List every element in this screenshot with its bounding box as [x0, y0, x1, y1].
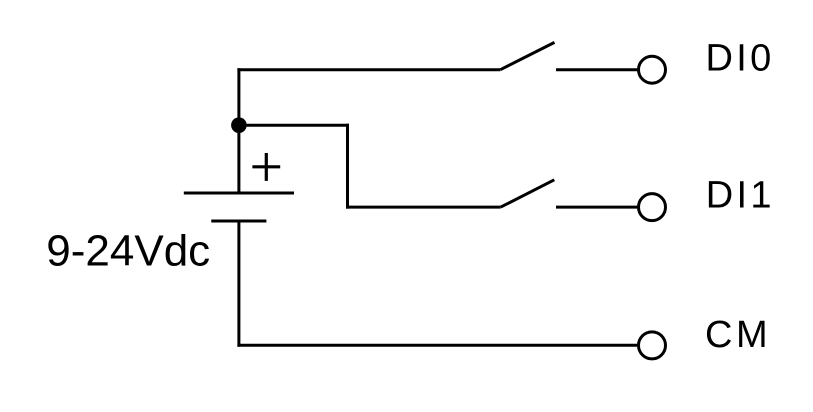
wire switch S2 right contact to terminal DI1	[556, 206, 638, 209]
switch S2 blade (DI1 row)	[501, 180, 555, 207]
wire top horizontal to switch S1	[237, 68, 500, 71]
svg-text:CM: CM	[705, 314, 771, 356]
switch S1 blade (DI0 row)	[500, 42, 554, 69]
wire battery positive vertical riser	[237, 68, 240, 193]
wire battery negative vertical drop	[237, 221, 240, 347]
svg-text:DI1: DI1	[706, 175, 775, 217]
battery BT1 positive plate	[184, 192, 294, 195]
wire branch vertical drop	[346, 124, 349, 209]
svg-text:9-24Vdc: 9-24Vdc	[46, 227, 210, 276]
battery BT1 negative plate	[211, 220, 266, 223]
junction node dot	[231, 117, 247, 133]
wire switch S1 right contact to terminal DI0	[556, 68, 638, 71]
battery plus polarity mark vertical bar	[265, 153, 268, 181]
battery plus polarity mark horizontal bar	[252, 165, 280, 168]
wire branch horizontal to switch S2	[346, 206, 501, 209]
terminal CM open circle	[639, 332, 666, 359]
wire junction to branch corner	[239, 124, 349, 127]
wire bottom horizontal to terminal CM	[237, 344, 638, 347]
terminal DI0 open circle	[639, 56, 666, 83]
terminal DI1 open circle	[639, 194, 666, 221]
svg-text:DI0: DI0	[706, 38, 775, 80]
